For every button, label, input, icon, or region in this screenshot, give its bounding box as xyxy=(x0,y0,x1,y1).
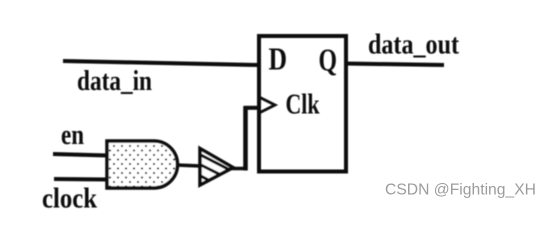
wire en input xyxy=(53,154,108,156)
AND gate G1 xyxy=(107,141,177,188)
svg-text:Clk: Clk xyxy=(286,90,320,121)
wire buffer output xyxy=(231,167,247,171)
buffer B1 xyxy=(200,149,233,186)
svg-text:en: en xyxy=(61,120,84,151)
svg-text:D: D xyxy=(269,41,288,77)
svg-text:CSDN @Fighting_XH: CSDN @Fighting_XH xyxy=(385,182,536,199)
svg-text:data_in: data_in xyxy=(77,66,152,97)
svg-text:data_out: data_out xyxy=(368,30,460,61)
svg-text:Q: Q xyxy=(319,42,338,78)
buffer hatch strokes xyxy=(199,154,230,182)
clock edge triangle on Clk pin xyxy=(260,98,275,113)
wire horizontal into Clk pin xyxy=(244,106,259,110)
wire vertical to Clk xyxy=(243,106,248,171)
svg-text:clock: clock xyxy=(42,184,97,210)
wire clock input xyxy=(54,177,108,182)
wire AND output xyxy=(176,165,201,166)
D flip-flop U1 body xyxy=(259,36,346,172)
wire data_in xyxy=(63,61,259,65)
wire data_out xyxy=(345,64,444,66)
